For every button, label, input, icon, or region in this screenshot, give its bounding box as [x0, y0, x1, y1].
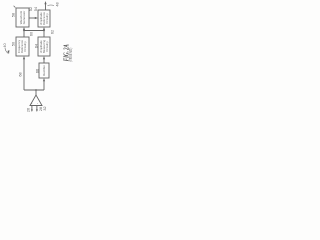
svg-text:62: 62: [51, 30, 55, 34]
svg-text:60: 60: [30, 32, 34, 36]
svg-text:Generator: Generator: [22, 11, 26, 25]
svg-text:58: 58: [12, 13, 16, 17]
svg-text:-: -: [35, 103, 39, 104]
svg-text:+: +: [30, 102, 34, 104]
svg-text:68: 68: [19, 72, 23, 76]
svg-text:Circuitry: Circuitry: [45, 13, 49, 24]
svg-text:26: 26: [27, 108, 31, 112]
svg-text:66: 66: [35, 69, 39, 73]
svg-text:52: 52: [29, 7, 33, 11]
svg-text:Circuitry: Circuitry: [23, 41, 27, 52]
svg-text:Rectifier: Rectifier: [42, 65, 46, 76]
svg-text:32: 32: [43, 106, 47, 110]
svg-text:50: 50: [12, 42, 16, 46]
svg-text:Circuitry: Circuitry: [45, 41, 49, 52]
svg-text:40: 40: [3, 43, 7, 47]
svg-text:48: 48: [56, 2, 60, 6]
svg-text:(PRIOR ART): (PRIOR ART): [68, 47, 73, 61]
svg-text:54: 54: [34, 7, 38, 11]
svg-text:64: 64: [34, 44, 38, 48]
